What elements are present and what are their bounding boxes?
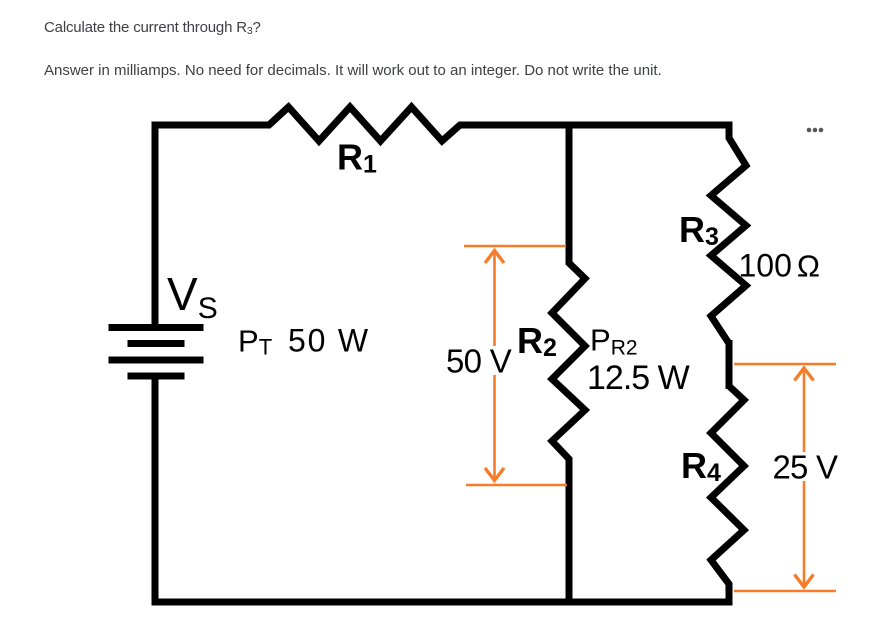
battery VS plate 4 (short) — [128, 373, 185, 380]
50 V arrow shaft (orange) — [493, 250, 496, 481]
svg-text:50 V: 50 V — [446, 342, 512, 379]
50 V measurement bottom tick (orange) — [466, 484, 567, 487]
svg-text:R2: R2 — [517, 320, 557, 362]
50 V measurement top tick (orange) — [464, 245, 566, 248]
question line 2 — [44, 61, 662, 81]
wire middle branch bottom (R2 to bottom wire) — [566, 459, 573, 602]
white backing for 50 V label — [444, 346, 513, 375]
svg-text:PR2: PR2 — [590, 323, 638, 360]
25 V measurement top tick (orange) — [734, 363, 836, 366]
svg-text:25 V: 25 V — [773, 449, 838, 486]
svg-text:12.5 W: 12.5 W — [587, 359, 690, 397]
battery VS plate 3 (long) — [109, 357, 204, 364]
svg-text:PT50 W: PT50 W — [238, 323, 370, 360]
wire between R3 and R4 — [726, 340, 733, 389]
question line 1 — [44, 18, 261, 41]
25 V arrowhead up — [795, 368, 814, 381]
50 V arrowhead down — [485, 468, 504, 481]
25 V arrow shaft (orange) — [803, 368, 806, 587]
wire top-right (R1 to top-right corner) — [460, 125, 729, 138]
25 V arrowhead down — [795, 575, 814, 588]
white backing for 25 V label — [770, 452, 838, 481]
resistor R2 — [552, 258, 585, 464]
25 V measurement bottom tick (orange) — [734, 590, 836, 593]
svg-text:R1: R1 — [337, 137, 377, 179]
svg-text:R4: R4 — [681, 445, 721, 487]
wire top-left (battery top to top-left corner to R1) — [155, 125, 269, 328]
50 V arrowhead up — [485, 251, 504, 264]
svg-text:100Ω: 100Ω — [739, 248, 821, 284]
resistor R3 — [711, 133, 746, 348]
battery VS plate 2 (short) — [128, 340, 185, 347]
options menu dots — [807, 128, 812, 133]
battery VS plate 1 (long) — [109, 324, 204, 331]
svg-text:R3: R3 — [679, 209, 719, 251]
resistor R4 — [711, 382, 744, 588]
wire bottom loop (R4 bottom, bottom wire, left wire up to battery bottom) — [155, 376, 729, 602]
resistor R1 — [264, 107, 465, 141]
wire middle branch top (top wire to R2) — [566, 122, 573, 264]
svg-text:VS: VS — [167, 268, 218, 325]
